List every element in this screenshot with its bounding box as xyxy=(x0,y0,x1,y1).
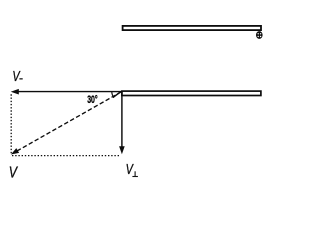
vector V shaft solid start segment at vertex xyxy=(113,91,122,97)
rod (top, horizontal bar) xyxy=(123,26,261,30)
svg-text:V: V xyxy=(126,161,134,178)
label Vperp perpendicular subscript symbol xyxy=(132,171,138,176)
angle arc at vertex xyxy=(112,92,114,98)
vector V- arrowhead xyxy=(11,89,19,95)
construction line (dotted horizontal, bottom) xyxy=(12,155,121,157)
pivot axis symbol (circle with cross) at right end of top rod xyxy=(256,31,263,39)
label V- subscript dash xyxy=(19,78,22,79)
construction line (dotted vertical, left side) xyxy=(10,94,12,155)
vector Vperp shaft (vertical arrow pointing down) xyxy=(121,92,123,148)
vector V shaft (dashed diagonal) xyxy=(16,92,121,152)
rod (bottom diagram, horizontal bar) xyxy=(122,91,261,95)
svg-text:30°: 30° xyxy=(87,93,98,105)
vector V arrowhead xyxy=(11,148,19,154)
vector V- shaft (horizontal arrow pointing left) xyxy=(18,91,122,93)
svg-text:V: V xyxy=(12,67,20,84)
svg-text:V: V xyxy=(9,163,19,181)
vector Vperp arrowhead xyxy=(119,146,125,154)
